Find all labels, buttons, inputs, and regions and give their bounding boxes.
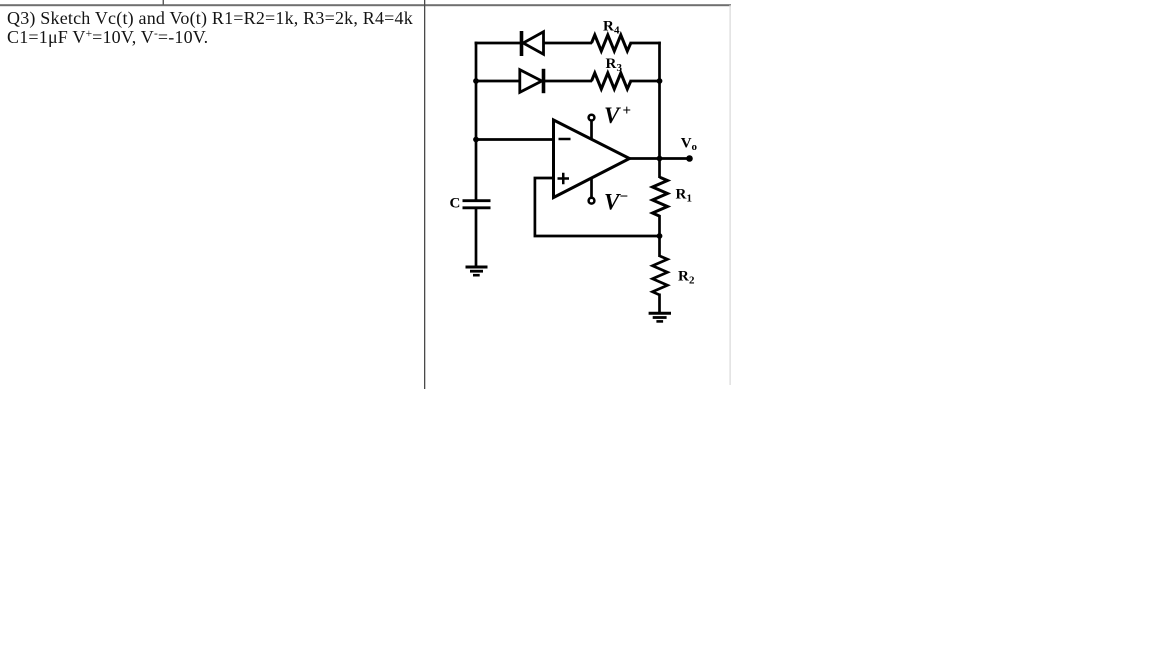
- ground under capacitor: [466, 267, 488, 275]
- ground under R2: [649, 313, 671, 321]
- wire: second branch middle segment (diode D2 to R3): [544, 80, 593, 83]
- op-amp minus symbol: [559, 138, 571, 141]
- wire: second branch right segment: [630, 80, 660, 83]
- svg-text:3: 3: [617, 62, 623, 74]
- V+ supply pin: [589, 115, 595, 140]
- resistor R4 zigzag: [592, 35, 631, 51]
- wire: inverting input from left rail to op-amp: [476, 138, 554, 141]
- wire: top branch middle segment (diode D1 to R4): [544, 42, 593, 45]
- svg-text:1: 1: [687, 193, 693, 205]
- svg-text:R: R: [606, 56, 617, 72]
- svg-text:2: 2: [689, 275, 695, 287]
- junction node: right rail / second branch: [657, 78, 663, 84]
- wire: left rail from top branch down to capacitor: [475, 42, 478, 200]
- wire: feedback loop from + input down to R1/R2 node: [535, 178, 660, 236]
- op-amp U1 triangle: [554, 120, 630, 198]
- junction node: R1/R2/feedback: [657, 233, 663, 239]
- svg-text:R: R: [676, 187, 687, 203]
- resistor R1 zigzag: [653, 177, 668, 216]
- resistor R2 zigzag: [653, 256, 668, 295]
- svg-text:o: o: [692, 141, 698, 153]
- svg-text:R: R: [603, 19, 614, 35]
- wire: R1 to R2 node: [658, 215, 661, 257]
- op-amp plus symbol: [558, 173, 570, 185]
- table border: left cell divider vertical: [424, 0, 425, 389]
- wire: right rail top (R4 corner down to output): [658, 42, 661, 178]
- table border: right cell divider vertical (faint): [730, 5, 731, 385]
- resistor R3 zigzag: [592, 73, 631, 89]
- diode D1 (cathode bar, points left): [522, 31, 544, 56]
- svg-text:R: R: [678, 269, 689, 285]
- junction node: left rail / inverting input: [473, 137, 479, 143]
- svg-text:V: V: [681, 136, 692, 152]
- capacitor C plates: [463, 201, 491, 208]
- svg-text:V: V: [604, 190, 621, 215]
- wire: R2 to ground: [658, 294, 661, 314]
- wire: top branch right segment: [630, 42, 661, 45]
- table border: top horizontal rule: [0, 4, 731, 6]
- junction node: left rail / second branch: [473, 78, 479, 84]
- V- supply pin: [589, 178, 595, 204]
- wire: op-amp output to Vo: [630, 157, 690, 160]
- wire: second branch left segment: [475, 80, 520, 83]
- table border: column tick at top: [163, 0, 164, 5]
- wire: top branch left segment: [475, 42, 520, 45]
- svg-text:C: C: [450, 196, 461, 212]
- svg-text:4: 4: [614, 25, 620, 37]
- svg-text:V: V: [604, 103, 621, 128]
- diode D2 (points right, cathode bar right): [520, 69, 544, 93]
- svg-text:−: −: [620, 189, 629, 205]
- question text: [7, 9, 413, 51]
- svg-text:+: +: [623, 103, 632, 119]
- wire: capacitor bottom plate to ground: [475, 208, 478, 268]
- junction node: output / right rail: [657, 156, 663, 162]
- terminal node Vo: [686, 155, 693, 162]
